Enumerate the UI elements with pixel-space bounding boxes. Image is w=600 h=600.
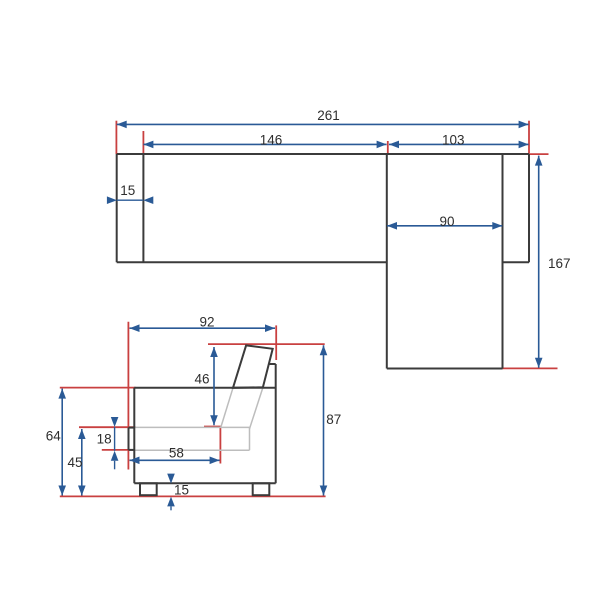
svg-text:167: 167 [548,256,571,271]
svg-text:261: 261 [317,108,340,123]
svg-text:90: 90 [439,214,454,229]
svg-text:87: 87 [326,412,341,427]
svg-text:45: 45 [67,455,82,470]
svg-text:46: 46 [194,372,209,387]
svg-text:15: 15 [120,183,135,198]
svg-text:18: 18 [97,431,112,446]
svg-text:64: 64 [46,429,62,444]
svg-text:92: 92 [199,314,214,329]
svg-text:103: 103 [442,132,465,147]
svg-text:146: 146 [260,133,283,148]
svg-text:58: 58 [169,446,184,461]
svg-text:15: 15 [174,483,189,498]
